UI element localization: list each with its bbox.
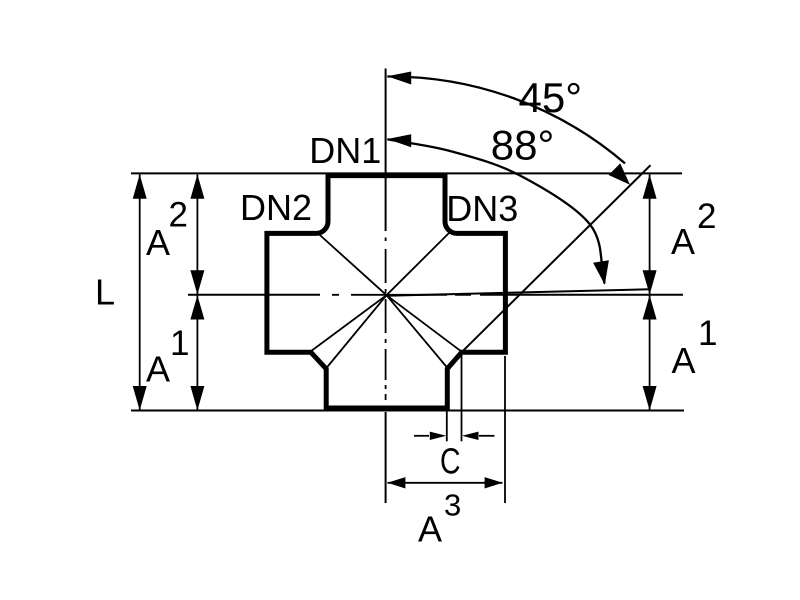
A1 right dimension line [649,295,651,411]
A3 right extension line [504,356,506,503]
arrowhead A2-right bottom [643,270,657,294]
arrowhead L top [133,174,147,198]
arrowhead A1-right top [643,295,657,319]
svg-text:2: 2 [697,197,716,236]
arrowhead 88-arc start (points left) [387,134,411,147]
horizontal centerline dashes [332,294,471,296]
45-degree reference line [462,165,651,352]
svg-text:45°: 45° [519,74,583,121]
arrowhead A3 right [485,477,503,488]
ray center to SW chamfer bottom [326,295,387,368]
svg-text:A: A [146,349,170,390]
svg-text:DN2: DN2 [240,187,312,228]
A2 right dimension line [649,175,651,295]
svg-text:1: 1 [170,324,189,363]
arrowhead A1-left top [190,295,204,319]
top extension line [131,172,682,174]
vertical centerline dashes [385,238,387,401]
arrowhead A1-left bottom [190,386,204,410]
C arrow tail left [414,435,429,437]
ray center to NW corner [317,232,387,295]
vertical centerline bottom solid (A3 extension) [385,412,387,503]
arrowhead 45-arc start (points left) [387,72,411,85]
arrowhead C left (points right) [430,432,447,440]
vertical centerline top solid [385,69,387,232]
88-degree dimension arc [387,139,604,283]
arrowhead A1-right bottom [643,386,657,410]
arrowhead A2-left top [190,174,204,198]
L dimension line [139,175,141,411]
tilted 88-degree reference line [387,289,651,296]
svg-text:1: 1 [698,314,717,353]
svg-text:L: L [95,271,115,312]
ray center to SW chamfer top [311,295,387,351]
ray center to SE chamfer top [387,295,462,352]
arrowhead 88-arc end (points down) [593,260,609,285]
ray center to NE corner [387,232,451,295]
svg-text:DN1: DN1 [309,130,381,171]
ray center to SE chamfer bottom [387,295,448,368]
C extension line right [461,353,463,441]
svg-text:A: A [672,340,696,381]
A2 left dimension line [196,175,198,295]
A1 left dimension line [196,295,198,411]
45-degree dimension arc [387,76,625,163]
horizontal centerline right solid [480,294,683,296]
arrowhead A3 left [387,477,405,488]
svg-text:DN3: DN3 [446,188,518,229]
svg-text:A: A [671,221,695,262]
horizontal centerline left solid [188,294,320,296]
arrowhead C right (points left) [462,432,479,440]
bottom extension line [131,410,684,412]
svg-text:A: A [418,509,442,550]
arrowhead A2-right top [643,174,657,198]
svg-text:A: A [146,222,170,263]
A3 dimension line [388,482,503,484]
arrowhead 45-arc end (points down-right) [609,163,630,184]
C extension line left [446,411,448,441]
svg-text:3: 3 [444,488,461,523]
cross body outline [267,176,506,408]
svg-text:2: 2 [169,196,188,235]
svg-text:C: C [440,440,461,481]
C arrow tail right [479,435,495,437]
arrowhead L bottom [133,386,147,410]
arrowhead A2-left bottom [190,270,204,294]
svg-text:88°: 88° [491,122,555,169]
